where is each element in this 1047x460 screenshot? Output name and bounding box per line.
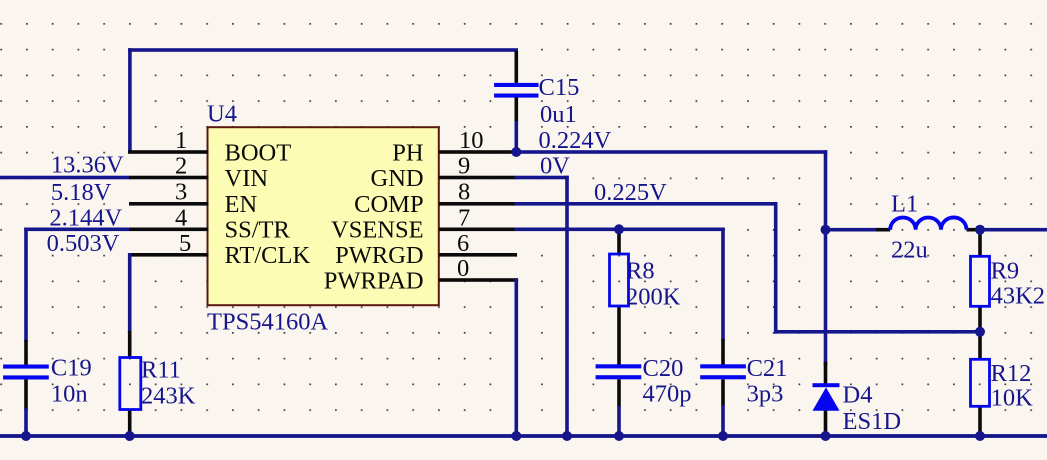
wire PH net horizontal (515, 150, 828, 154)
wire C19 to ground bus (24, 408, 28, 436)
svg-text:2.144V: 2.144V (49, 204, 122, 231)
svg-text:PWRPAD: PWRPAD (324, 267, 424, 294)
resistor R9 leads (978, 230, 982, 332)
capacitor C20 (596, 364, 642, 379)
diode D4 triangle (813, 387, 840, 410)
wire PH to D4 (824, 230, 828, 366)
svg-text:BOOT: BOOT (225, 139, 292, 166)
svg-text:2: 2 (175, 153, 187, 180)
svg-text:1: 1 (175, 127, 187, 154)
wire L1 to right edge (980, 228, 1047, 232)
svg-text:10K: 10K (991, 384, 1034, 411)
wire VSENSE net vertical to C21 (721, 228, 725, 341)
wire BOOT net vertical (128, 48, 132, 153)
svg-text:R9: R9 (991, 257, 1020, 284)
svg-text:D4: D4 (843, 382, 873, 409)
svg-text:VSENSE: VSENSE (331, 217, 424, 244)
pin 10 lead (439, 150, 517, 154)
capacitor C20 bottom lead (617, 379, 621, 407)
svg-text:L1: L1 (891, 191, 918, 218)
svg-text:R8: R8 (626, 257, 655, 284)
wire RT/CLK net vertical (128, 253, 132, 333)
pin 8 lead (439, 202, 515, 206)
junction PH L1 (821, 225, 831, 235)
wire PH net vertical (824, 150, 828, 231)
svg-text:43K2: 43K2 (991, 283, 1045, 310)
junction L1 R9 (975, 225, 985, 235)
svg-text:SS/TR: SS/TR (225, 217, 291, 244)
wire SS/TR net vertical to C19 (24, 228, 28, 342)
svg-text:3: 3 (175, 179, 187, 206)
capacitor C15 (494, 83, 538, 98)
wire GND net vertical (565, 176, 569, 437)
ground bus wire (0, 434, 1047, 438)
wire BOOT net top horizontal (128, 48, 518, 52)
svg-text:GND: GND (371, 165, 424, 192)
svg-text:0u1: 0u1 (540, 101, 577, 128)
wire COMP net vertical (774, 202, 778, 334)
svg-text:0: 0 (457, 255, 469, 282)
resistor R12 (971, 359, 990, 406)
pin 3 lead (129, 202, 209, 206)
svg-text:6: 6 (457, 230, 469, 257)
pin 4 lead (129, 228, 209, 232)
junction R9 R12 COMP (975, 327, 985, 337)
wire VIN net (0, 176, 129, 180)
svg-text:200K: 200K (626, 283, 681, 310)
pin 0 lead (439, 278, 518, 282)
svg-text:PH: PH (392, 139, 423, 166)
junction bus GND (562, 431, 572, 441)
IC U4 body (208, 127, 439, 305)
resistor R11 (120, 358, 141, 410)
pin 9 lead (439, 176, 515, 180)
svg-text:C21: C21 (747, 355, 788, 382)
svg-text:5.18V: 5.18V (51, 179, 112, 206)
svg-text:U4: U4 (207, 100, 237, 127)
diode D4 cathode bar (813, 383, 840, 387)
svg-text:ES1D: ES1D (843, 408, 902, 435)
svg-text:R12: R12 (991, 360, 1032, 387)
resistor R8 leads (617, 229, 621, 364)
capacitor C21 leads (721, 339, 725, 406)
resistor R12 leads (978, 332, 982, 436)
wire VSENSE net horizontal (515, 228, 725, 232)
svg-text:VIN: VIN (225, 165, 269, 192)
svg-text:C15: C15 (539, 74, 580, 101)
svg-text:3p3: 3p3 (747, 380, 784, 407)
resistor R8 (610, 254, 629, 306)
svg-text:0.503V: 0.503V (47, 230, 120, 257)
wire COMP net horizontal (515, 202, 778, 206)
junction bus C21 (718, 431, 728, 441)
junction VSENSE R8 (614, 224, 624, 234)
capacitor C19 (3, 365, 49, 380)
svg-text:0V: 0V (540, 153, 570, 180)
resistor R11 leads (128, 331, 132, 434)
resistor R9 (971, 256, 990, 306)
junction bus C20 (614, 431, 624, 441)
svg-text:5: 5 (179, 230, 191, 257)
svg-text:9: 9 (458, 153, 470, 180)
pin 6 lead (439, 253, 517, 257)
svg-text:4: 4 (175, 204, 187, 231)
svg-text:0.225V: 0.225V (594, 179, 667, 206)
svg-text:RT/CLK: RT/CLK (225, 242, 311, 269)
wire C15 bottom to PH junction (515, 120, 519, 154)
pin 1 lead (128, 150, 208, 154)
junction PH pin10 (511, 147, 521, 157)
svg-text:C19: C19 (51, 354, 92, 381)
capacitor C19 leads (24, 340, 28, 410)
wire SS/TR net horizontal (24, 228, 129, 232)
svg-text:243K: 243K (141, 383, 196, 410)
junction bus PWRPAD (511, 431, 521, 441)
svg-text:7: 7 (458, 204, 470, 231)
junction bus C19 (21, 431, 31, 441)
capacitor C21 (700, 364, 746, 379)
svg-text:8: 8 (458, 179, 470, 206)
svg-text:EN: EN (225, 191, 258, 218)
wire C20 to ground bus (617, 406, 621, 436)
wire GND net horizontal (515, 176, 569, 180)
svg-text:R11: R11 (141, 357, 181, 384)
svg-text:10n: 10n (51, 380, 88, 407)
svg-text:PWRGD: PWRGD (335, 242, 423, 269)
svg-text:10: 10 (459, 127, 484, 154)
pin 7 lead (439, 228, 515, 232)
wire PH to L1 (826, 228, 879, 232)
svg-text:13.36V: 13.36V (51, 152, 124, 179)
inductor L1 leads (876, 228, 978, 232)
inductor L1 (890, 217, 966, 229)
svg-text:TPS54160A: TPS54160A (207, 309, 328, 336)
junction bus R11 (125, 431, 135, 441)
pin 2 lead (129, 176, 209, 180)
svg-text:22u: 22u (891, 237, 928, 264)
svg-text:470p: 470p (643, 380, 692, 407)
svg-text:COMP: COMP (354, 191, 423, 218)
pin 5 lead (130, 253, 209, 257)
junction bus R12 (975, 431, 985, 441)
diode D4 leads (824, 362, 828, 434)
wire COMP to R9/R12 junction (774, 330, 982, 334)
capacitor C15 leads (514, 51, 518, 121)
svg-text:0.224V: 0.224V (539, 127, 612, 154)
wire C21 to ground bus (721, 405, 725, 436)
wire PWRPAD to ground bus (515, 278, 519, 436)
junction bus D4 (821, 431, 831, 441)
svg-text:C20: C20 (643, 355, 684, 382)
